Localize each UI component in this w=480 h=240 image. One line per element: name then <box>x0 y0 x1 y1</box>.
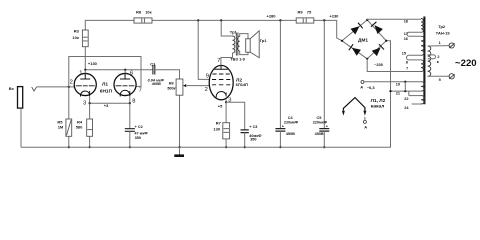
wire secondary to speaker <box>240 34 248 55</box>
svg-text:R7: R7 <box>216 120 222 125</box>
wire R5 top <box>68 87 70 119</box>
V2 plate bar <box>215 65 228 69</box>
svg-text:R9: R9 <box>298 10 304 15</box>
svg-text:+280: +280 <box>267 13 277 18</box>
wire R6 bottom to ground <box>179 95 181 147</box>
pin 1 <box>84 70 86 74</box>
wire input box to ground bus <box>20 108 22 147</box>
node bridge bottom <box>366 58 368 60</box>
Tr2 winding 19-21 <box>421 82 425 91</box>
Tr2 winding 18-17 <box>421 19 423 33</box>
svg-text:Л1: Л1 <box>102 81 108 87</box>
svg-text:ДМ1: ДМ1 <box>358 37 368 43</box>
svg-text:+ С2: + С2 <box>135 125 143 129</box>
svg-text:А: А <box>360 85 363 90</box>
wire cathode line <box>90 102 130 104</box>
svg-text:15: 15 <box>402 52 406 56</box>
wire top B+ rail <box>85 20 342 40</box>
potentiometer R6 volume <box>176 79 183 95</box>
svg-text:10к: 10к <box>145 10 151 15</box>
wire R4 top <box>89 103 91 119</box>
wire plate tie line <box>85 69 152 71</box>
capacitor C4 <box>279 20 281 128</box>
svg-text:350: 350 <box>135 136 141 140</box>
wire Tr1 primary bottom to V2 plate <box>221 53 233 65</box>
svg-text:7: 7 <box>139 88 142 94</box>
wire bridge bottom to pin 7 <box>367 59 421 72</box>
svg-text:580: 580 <box>76 124 83 129</box>
wire pin 22 stub <box>409 95 421 97</box>
node bridge top <box>366 19 368 21</box>
capacitor C1 <box>153 65 155 75</box>
node OT primary tap <box>220 19 222 21</box>
wire 6.3V winding pin 19 <box>364 81 421 83</box>
svg-text:~220: ~220 <box>455 58 477 69</box>
mains plug pin top <box>449 43 454 48</box>
svg-text:220мкФ: 220мкФ <box>284 121 299 125</box>
svg-text:47 мкФ: 47 мкФ <box>134 131 148 135</box>
input plug pin chevron <box>32 87 37 91</box>
wiper arrow of R6 <box>186 85 209 87</box>
svg-text:2: 2 <box>205 87 208 93</box>
svg-text:10к: 10к <box>72 35 78 40</box>
tap dot pin 4 <box>437 61 439 63</box>
node bridge right <box>385 40 387 42</box>
heater tent symbol to tubes <box>343 98 365 113</box>
svg-text:450В: 450В <box>286 132 295 136</box>
speaker Gr1 <box>246 39 251 52</box>
svg-text:ТАН-19: ТАН-19 <box>436 30 451 35</box>
svg-text:+3: +3 <box>104 103 109 108</box>
svg-text:Гр1: Гр1 <box>260 38 268 43</box>
Tr2 winding 16-15 <box>421 36 424 55</box>
ground chassis symbol <box>179 147 181 154</box>
wire pin 24 stub <box>412 103 421 105</box>
svg-text:1: 1 <box>79 71 82 77</box>
wire C1 to R6 <box>155 70 180 79</box>
wire R3 to plate node <box>84 47 86 70</box>
mains plug pin bottom <box>449 74 454 79</box>
pentode V2 envelope <box>209 65 233 99</box>
pin 8 wire <box>129 95 131 104</box>
svg-text:17: 17 <box>404 32 408 36</box>
svg-text:ТВЗ 1-9: ТВЗ 1-9 <box>230 57 245 62</box>
Tr2 primary winding <box>428 46 431 76</box>
svg-text:8: 8 <box>132 98 135 104</box>
pin 17 16 jumper <box>407 32 421 36</box>
capacitor C5 <box>323 20 325 128</box>
svg-text:6Н1П: 6Н1П <box>100 89 113 95</box>
wire R4 bottom <box>89 136 91 147</box>
svg-text:21: 21 <box>396 92 400 96</box>
node plate pin1 <box>84 69 86 71</box>
svg-text:400В: 400В <box>151 82 161 86</box>
V2 cathode arc <box>216 91 226 97</box>
Tr2 core <box>423 17 425 105</box>
capacitor C3 <box>226 102 245 130</box>
node A marker top <box>361 81 364 84</box>
svg-text:350: 350 <box>250 138 256 142</box>
Tr1 primary winding <box>233 36 235 53</box>
svg-text:Вх: Вх <box>9 86 15 91</box>
bridge rectifier DM1 diamond <box>342 20 386 59</box>
wire jumper 19-21 <box>404 82 406 91</box>
Tr1 secondary winding <box>237 37 239 52</box>
svg-text:7: 7 <box>217 58 220 64</box>
svg-text:R8: R8 <box>136 10 142 15</box>
wire R5 bottom <box>68 136 70 147</box>
svg-text:6: 6 <box>130 71 133 77</box>
svg-text:2: 2 <box>437 55 439 59</box>
Tr1 core <box>236 33 238 56</box>
Tr2 winding 8-7 <box>421 60 424 72</box>
resistor R4 <box>87 119 93 136</box>
triode V1a 6N1P <box>74 73 96 95</box>
wire jumper 21-22 <box>408 91 410 96</box>
resistor R9 <box>296 18 314 23</box>
svg-text:5: 5 <box>439 78 441 82</box>
wire screen grid pin9 from rail <box>198 20 209 79</box>
svg-text:16: 16 <box>404 37 408 41</box>
svg-text:+5: +5 <box>218 104 223 109</box>
potentiometer R5 grid leak <box>66 119 72 136</box>
input connector box <box>18 87 23 109</box>
svg-text:9: 9 <box>206 74 209 80</box>
capacitor C2 cathode bypass <box>129 103 131 129</box>
svg-text:1: 1 <box>439 41 441 45</box>
svg-text:R3: R3 <box>74 28 80 33</box>
svg-text:7: 7 <box>406 67 408 71</box>
svg-text:3: 3 <box>83 100 86 106</box>
svg-text:6П14П: 6П14П <box>236 82 249 87</box>
svg-text:С5: С5 <box>317 116 322 120</box>
svg-text:Л1, Л2: Л1, Л2 <box>371 98 386 104</box>
svg-text:~6,3: ~6,3 <box>367 85 376 90</box>
resistor R7 <box>223 123 230 139</box>
wire rail to Tr1 primary top <box>221 20 232 36</box>
svg-text:450В: 450В <box>315 132 324 136</box>
svg-text:220мкФ: 220мкФ <box>313 121 328 125</box>
svg-text:22: 22 <box>404 97 408 101</box>
svg-text:+130: +130 <box>88 61 98 66</box>
svg-text:~230: ~230 <box>374 62 384 67</box>
wire ground bus <box>21 41 391 148</box>
wire grid net to pin 7 of V1b <box>69 57 141 87</box>
svg-text:130: 130 <box>213 127 220 132</box>
svg-text:1М: 1М <box>58 124 64 129</box>
svg-text:А: А <box>364 125 367 130</box>
triode V1b 6N1P <box>114 73 136 95</box>
Tr2 winding 22-24 <box>421 96 425 104</box>
node cathode pin3 <box>89 102 91 104</box>
svg-text:75: 75 <box>307 10 312 15</box>
svg-text:+ С3: + С3 <box>249 125 257 129</box>
wire tap pin 2 <box>428 55 436 59</box>
node plate pin6 <box>124 69 126 71</box>
node A marker bottom <box>363 120 366 123</box>
resistor R3 <box>82 30 88 47</box>
node screen-grid tap <box>197 19 199 21</box>
svg-text:накал: накал <box>371 104 385 109</box>
resistor R8 <box>134 18 152 23</box>
svg-text:8: 8 <box>406 60 408 64</box>
svg-text:19: 19 <box>396 82 400 86</box>
V2 grid dashes g3 <box>212 84 230 86</box>
wire bridge top to pin 18 <box>367 18 421 21</box>
svg-text:2: 2 <box>70 80 73 86</box>
svg-text:Тр2: Тр2 <box>438 24 446 29</box>
svg-text:+230: +230 <box>329 13 339 18</box>
pin 3 wire <box>89 95 91 103</box>
wire input to grid node <box>37 86 75 88</box>
V2 grid dashes g1 <box>212 79 230 81</box>
wire primary top pin1 <box>428 45 449 47</box>
wire pin 21 <box>391 90 422 92</box>
wire pin3 cathode down <box>225 100 227 103</box>
node grid junction <box>68 86 70 88</box>
svg-text:500к: 500к <box>167 86 176 90</box>
node bridge left <box>341 40 343 42</box>
pin 15 8 jumper <box>406 55 421 60</box>
node cathode pin8/C2 <box>129 102 131 104</box>
wire primary bottom pin5 <box>428 75 449 77</box>
svg-text:С1: С1 <box>150 62 156 67</box>
svg-text:18: 18 <box>404 19 408 23</box>
pin 6 <box>124 70 126 74</box>
V2 grid dashes g2 <box>213 73 230 75</box>
